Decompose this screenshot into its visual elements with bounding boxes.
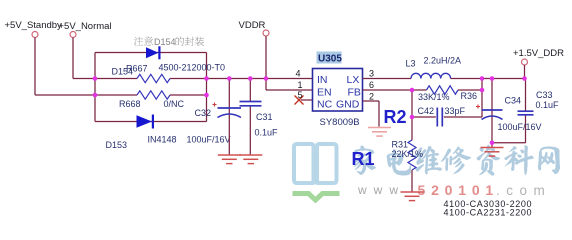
junction dots rail caps bbox=[227, 76, 268, 81]
ground R31 bbox=[401, 192, 424, 201]
U305 reference label highlight bbox=[317, 52, 343, 65]
diode D153 bbox=[137, 115, 155, 129]
capacitor C42 bbox=[412, 108, 482, 127]
svg-text:FB: FB bbox=[348, 86, 361, 98]
power flag +5V_Standby bbox=[5, 20, 63, 38]
capacitor C32 bbox=[213, 79, 242, 156]
wire FB net R36 bbox=[412, 89, 482, 91]
svg-text:IN: IN bbox=[317, 74, 328, 86]
svg-text:R31: R31 bbox=[392, 140, 409, 150]
ground output caps bbox=[491, 143, 493, 147]
resistor R36 bbox=[427, 86, 459, 94]
svg-text:NC: NC bbox=[317, 98, 333, 110]
svg-text:33pF: 33pF bbox=[445, 106, 466, 116]
svg-text:R667: R667 bbox=[126, 64, 148, 74]
junction dots input bbox=[93, 76, 209, 97]
wire right bus bbox=[206, 53, 208, 122]
svg-text:5: 5 bbox=[298, 90, 303, 100]
svg-text:0/NC: 0/NC bbox=[164, 99, 185, 109]
svg-text:www: www bbox=[357, 183, 405, 197]
svg-text:D154: D154 bbox=[154, 37, 176, 47]
wire FB pin6 bbox=[363, 89, 413, 91]
svg-text:C33: C33 bbox=[536, 90, 553, 100]
svg-text:U305: U305 bbox=[318, 54, 342, 65]
power flag +1.5V_DDR bbox=[513, 48, 564, 65]
svg-text:GND: GND bbox=[336, 98, 360, 110]
capacitor C31 bbox=[240, 79, 262, 156]
svg-text:100uF/16V: 100uF/16V bbox=[187, 135, 231, 145]
wire +5V_Standby to left bus bbox=[35, 38, 95, 96]
inductor L3 bbox=[411, 73, 451, 78]
svg-text:100uF/16V: 100uF/16V bbox=[498, 122, 542, 132]
svg-text:33K/1%: 33K/1% bbox=[418, 92, 450, 102]
svg-text:520101: 520101 bbox=[418, 182, 500, 198]
svg-text:IN4148: IN4148 bbox=[148, 135, 177, 145]
diode D154 bbox=[146, 46, 161, 59]
svg-text:L3: L3 bbox=[406, 59, 416, 69]
svg-text:C31: C31 bbox=[256, 112, 273, 122]
svg-text:1: 1 bbox=[298, 80, 303, 90]
svg-text:2.2uH/2A: 2.2uH/2A bbox=[424, 56, 462, 66]
ground U305 GND bbox=[368, 128, 391, 137]
wire R668 branch bbox=[95, 94, 207, 96]
svg-text:LX: LX bbox=[347, 74, 360, 86]
svg-text:R2: R2 bbox=[384, 107, 407, 127]
svg-text:VDDR: VDDR bbox=[239, 20, 266, 31]
wire output rail bbox=[451, 78, 526, 80]
svg-text:SY8009B: SY8009B bbox=[320, 117, 360, 128]
wire left bus bbox=[94, 53, 96, 122]
wire VDDR down to EN bbox=[265, 36, 267, 90]
wire LX pin3 bbox=[363, 78, 412, 80]
wire D154 branch bbox=[95, 52, 207, 54]
wire C33 bottom link bbox=[492, 142, 526, 144]
svg-text:0.1uF: 0.1uF bbox=[255, 128, 279, 138]
pin stub NC pin5 bbox=[301, 99, 313, 101]
capacitor C33 bbox=[518, 79, 534, 143]
watermark book logo bbox=[293, 144, 340, 200]
power flag +5V_Normal bbox=[59, 21, 112, 38]
watermark text 家电维修资料网 bbox=[353, 145, 560, 176]
svg-text:4: 4 bbox=[296, 69, 301, 79]
wire D153 branch bbox=[95, 121, 207, 123]
resistor R668 bbox=[137, 91, 170, 99]
wire R31 to ground bbox=[411, 170, 413, 192]
svg-text:6: 6 bbox=[369, 80, 374, 90]
svg-text:R36: R36 bbox=[461, 91, 478, 101]
svg-text:3: 3 bbox=[369, 69, 374, 79]
svg-text:0.1uF: 0.1uF bbox=[536, 100, 560, 110]
resistor R667 bbox=[137, 74, 170, 82]
note text 注意D154的封装 bbox=[134, 37, 204, 48]
capacitor C34 bbox=[476, 79, 503, 143]
svg-text:4100-CA2231-2200: 4100-CA2231-2200 bbox=[444, 207, 532, 217]
no-connect X on pin 5 bbox=[295, 96, 304, 105]
svg-text:D153: D153 bbox=[106, 140, 128, 150]
wire GND pin2 bbox=[363, 101, 380, 127]
wire +1.5V_DDR drop bbox=[524, 65, 526, 79]
svg-text:R1: R1 bbox=[352, 149, 375, 169]
svg-text:R668: R668 bbox=[119, 99, 141, 109]
resistor R31 bbox=[408, 140, 416, 170]
svg-text:C42: C42 bbox=[418, 106, 435, 116]
wire rail drop to R36 bbox=[481, 79, 483, 118]
svg-text:EN: EN bbox=[317, 86, 332, 98]
wire EN pin1 bbox=[266, 89, 313, 91]
op-amp U305 body bbox=[313, 69, 363, 112]
svg-text:C34: C34 bbox=[505, 96, 522, 106]
wire +5V_Normal to left bus bbox=[73, 38, 95, 79]
svg-text:22K/1%: 22K/1% bbox=[392, 149, 424, 159]
svg-text:.com: .com bbox=[496, 183, 551, 198]
svg-text:2: 2 bbox=[369, 92, 374, 102]
power flag VDDR bbox=[239, 20, 270, 36]
wire FB vertical to C42 line bbox=[411, 90, 413, 117]
svg-text:+5V_Normal: +5V_Normal bbox=[59, 21, 112, 32]
svg-text:+5V_Standby: +5V_Standby bbox=[5, 20, 63, 31]
ground C32 bbox=[218, 155, 241, 164]
ground C31 bbox=[239, 155, 262, 164]
svg-text:C32: C32 bbox=[195, 108, 212, 118]
svg-text:+1.5V_DDR: +1.5V_DDR bbox=[513, 48, 564, 59]
wire to R31 bbox=[411, 117, 413, 140]
svg-text:4500-212000-T0: 4500-212000-T0 bbox=[159, 63, 226, 73]
junction dots output bbox=[410, 76, 527, 145]
wire main rail bbox=[95, 78, 313, 80]
